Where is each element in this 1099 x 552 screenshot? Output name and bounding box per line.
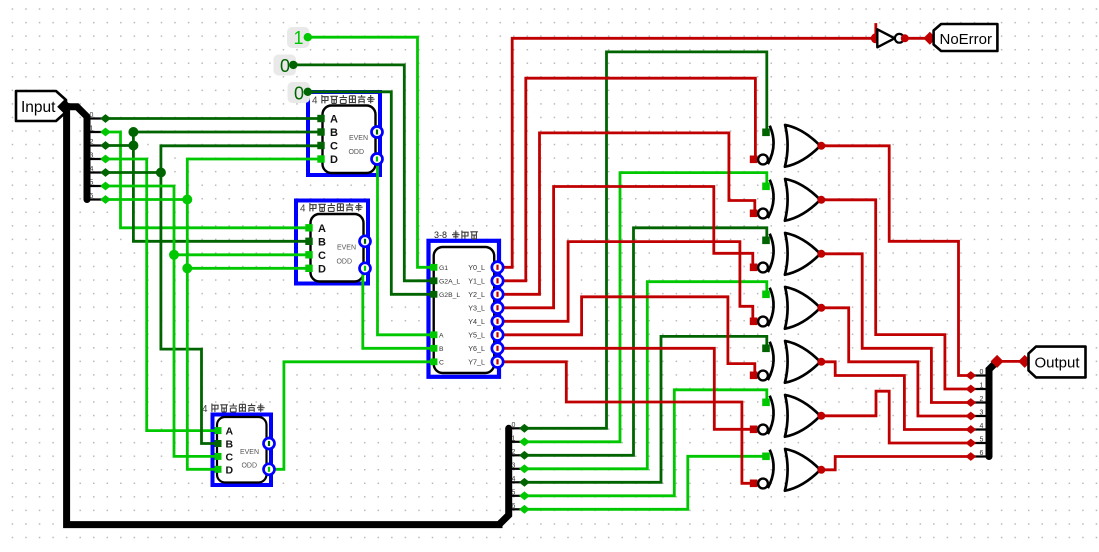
svg-text:EVEN: EVEN — [349, 135, 368, 142]
wire U4.Y7_L to G7 lower — [502, 362, 754, 484]
wire U4.Y4_L to G4 lower — [502, 242, 753, 322]
svg-text:3: 3 — [980, 410, 984, 417]
wire U3.ODD to U4.C — [269, 362, 433, 470]
node G5 output — [817, 358, 825, 366]
wire data bit6 to G7 upper input — [524, 456, 766, 509]
svg-text:G2B_L: G2B_L — [439, 292, 460, 299]
node bit2 corner dot — [128, 127, 138, 137]
wire bit4 to U1.C — [106, 146, 322, 173]
node G3 output — [817, 250, 825, 258]
node G1 output — [817, 142, 825, 150]
svg-text:5: 5 — [980, 437, 984, 444]
ports U3 — [215, 427, 222, 434]
svg-text:A: A — [318, 223, 326, 235]
node bottom splitter leg 1 — [519, 437, 530, 446]
svg-text:B: B — [330, 127, 338, 139]
svg-text:0: 0 — [980, 369, 984, 376]
constant 1 — [287, 27, 310, 48]
wire data bit1 to G2 upper input — [524, 173, 766, 442]
svg-text:2: 2 — [980, 396, 984, 403]
wire G1 output to combiner bit0 — [821, 146, 971, 376]
svg-text:Y3_L: Y3_L — [468, 304, 485, 313]
node constant1 output — [304, 33, 312, 41]
node constant0b output — [304, 88, 312, 96]
parity checker U3 (4-bit odd/even) — [213, 415, 272, 486]
svg-text:3: 3 — [512, 462, 516, 469]
svg-text:ODD: ODD — [348, 149, 364, 156]
svg-text:Y7_L: Y7_L — [468, 358, 485, 367]
wire G2 output to combiner bit1 — [821, 200, 971, 389]
svg-text:C: C — [330, 141, 338, 153]
wire data bit3 to G4 upper input — [524, 282, 766, 469]
node G6 output — [817, 412, 825, 420]
node bit6 junction — [182, 195, 192, 205]
svg-text:6: 6 — [90, 193, 94, 200]
svg-text:EVEN: EVEN — [337, 244, 356, 251]
wire bit3 to U3.A — [106, 159, 217, 431]
wire const1 to U4.G1 — [308, 37, 433, 267]
wire U4.Y2_L to G2 lower — [502, 133, 755, 294]
wire bit5 to U3.C — [174, 255, 216, 457]
node top splitter leg 5 — [100, 182, 111, 191]
node constant0a output — [289, 61, 297, 69]
svg-text:ODD: ODD — [241, 462, 257, 469]
node Output pin tip — [1018, 355, 1031, 368]
node U5 output — [901, 34, 909, 42]
wire bit0 to U1.A — [106, 117, 322, 120]
svg-text:4: 4 — [512, 476, 516, 483]
constant 0 (b) — [288, 82, 311, 103]
node bit6 junction 2 — [182, 263, 192, 273]
output pin Output — [1029, 347, 1086, 378]
svg-text:5: 5 — [90, 180, 94, 187]
svg-text:B: B — [439, 346, 444, 353]
node top splitter leg 3 — [100, 155, 111, 164]
node combiner leg 1 — [965, 385, 976, 394]
node bottom splitter leg 3 — [519, 464, 530, 473]
ports U2 — [305, 224, 312, 231]
svg-text:0: 0 — [280, 56, 290, 76]
wire G6 output to combiner bit5 — [821, 391, 971, 443]
splitter S1 (7-bit fanout, top) — [66, 107, 87, 200]
svg-text:4: 4 — [312, 95, 318, 106]
svg-text:Y2_L: Y2_L — [468, 290, 485, 299]
wire bit2 to U2.B — [133, 146, 310, 242]
svg-text:Y0_L: Y0_L — [468, 263, 485, 272]
svg-text:6: 6 — [980, 450, 984, 457]
wire const0b to U4.G2B_L — [308, 92, 433, 294]
decoder U4 (3-to-8) — [429, 241, 500, 377]
svg-text:0: 0 — [294, 84, 304, 104]
wire bit5 to U2.C — [106, 186, 311, 255]
node bottom splitter leg 6 — [519, 505, 530, 514]
node combiner leg 3 — [965, 412, 976, 421]
node top splitter leg 4 — [100, 168, 111, 177]
not gate U5 — [877, 29, 894, 47]
wire data bit0 to G1 upper input — [524, 52, 766, 428]
wire U1.ODD to U4.A — [377, 159, 433, 335]
xor gate G6 (negated lower input) — [785, 395, 820, 437]
node top splitter leg 0 — [100, 114, 111, 123]
svg-text:D: D — [330, 154, 338, 166]
wire data bit2 to G3 upper input — [524, 228, 766, 455]
xor gate G1 (negated lower input) — [785, 125, 820, 167]
node top splitter leg 6 — [100, 195, 111, 204]
node combiner leg 6 — [965, 452, 976, 461]
svg-text:2: 2 — [512, 449, 516, 456]
svg-text:2: 2 — [90, 139, 94, 146]
node G2 output — [817, 196, 825, 204]
svg-text:A: A — [439, 333, 444, 340]
svg-text:A: A — [226, 426, 234, 438]
svg-text:C: C — [318, 250, 326, 262]
svg-text:G1: G1 — [439, 265, 448, 272]
node bottom splitter leg 2 — [519, 451, 530, 460]
parity checker U2 (4-bit odd/even) — [296, 201, 368, 284]
wire bit6 to U2.D — [187, 200, 310, 269]
wire bit6 to U3.D — [187, 268, 216, 469]
splitter S3 (7-bit combiner, output) — [989, 361, 997, 456]
wire U4.Y6_L to G6 lower — [502, 348, 754, 429]
xor gate G3 (negated lower input) — [785, 233, 820, 275]
wire bit1 to U2.A — [106, 132, 311, 228]
splitter S2 (7-bit fanout, bottom) — [499, 428, 509, 524]
svg-text:C: C — [439, 360, 444, 367]
wire data bit4 to G5 upper input — [524, 336, 766, 482]
svg-text:A: A — [330, 114, 338, 126]
node NOT input junction — [871, 33, 881, 43]
node NoError pin tip — [923, 32, 936, 45]
svg-text:C: C — [226, 451, 234, 463]
svg-text:1: 1 — [512, 435, 516, 442]
parity checker U1 (4-bit odd/even) — [308, 92, 380, 175]
node bottom splitter leg 0 — [519, 424, 530, 433]
wire U4.Y3_L to G3 lower — [502, 187, 753, 308]
node combiner leg 5 — [965, 439, 976, 448]
output pin NoError — [934, 24, 998, 51]
ports U1 — [317, 115, 324, 122]
xor gate G4 (negated lower input) — [785, 287, 820, 329]
wire U4.Y1_L to G1 lower — [502, 78, 755, 281]
wire bit6 to U1.D — [106, 159, 322, 200]
svg-text:1: 1 — [293, 28, 303, 48]
wire const0a to U4.G2A_L — [293, 65, 433, 281]
wire G7 output to combiner bit6 — [821, 457, 971, 470]
svg-text:1: 1 — [980, 383, 984, 390]
svg-text:Y1_L: Y1_L — [468, 277, 485, 286]
node top splitter leg 1 — [100, 128, 111, 137]
wire U5 output to NoError — [904, 37, 930, 40]
wire combiner to Output pin — [997, 360, 1026, 363]
svg-text:D: D — [226, 464, 234, 476]
xor gate G2 (negated lower input) — [785, 179, 820, 221]
xor gate G5 (negated lower input) — [785, 341, 820, 383]
svg-text:B: B — [318, 236, 326, 248]
wire G3 output to combiner bit2 — [821, 254, 971, 403]
node combiner origin — [991, 355, 1004, 368]
svg-text:B: B — [226, 439, 234, 451]
svg-text:Y6_L: Y6_L — [468, 344, 485, 353]
wire stub above NOT input — [874, 25, 877, 39]
svg-text:EVEN: EVEN — [240, 449, 259, 456]
node bit2 junction — [128, 141, 138, 151]
svg-text:3-8: 3-8 — [434, 230, 447, 240]
wire U4.Y5_L to G5 lower — [502, 297, 755, 376]
node top splitter leg 2 — [100, 141, 111, 150]
svg-text:Output: Output — [1035, 355, 1081, 372]
node bottom splitter leg 5 — [519, 491, 530, 500]
node input bus junction — [57, 99, 72, 114]
svg-text:0: 0 — [90, 112, 94, 119]
node G4 output — [817, 304, 825, 312]
node combiner leg 4 — [965, 425, 976, 434]
wire U2.ODD to U4.B — [363, 268, 433, 348]
node bottom splitter leg 4 — [519, 478, 530, 487]
node bit4 junction — [156, 168, 166, 178]
node combiner leg 2 — [965, 398, 976, 407]
wire bus Input to bottom splitter — [65, 107, 499, 525]
svg-text:5: 5 — [512, 489, 516, 496]
svg-text:ODD: ODD — [336, 258, 352, 265]
svg-text:0: 0 — [512, 422, 516, 429]
wire bit4 to U3.B — [161, 173, 216, 444]
node bit5 junction — [169, 250, 179, 260]
wire data bit5 to G6 upper input — [524, 390, 766, 496]
svg-text:1: 1 — [90, 126, 94, 133]
wire bit2 to U1.B — [106, 132, 322, 146]
wire G4 output to combiner bit3 — [821, 308, 971, 416]
svg-text:NoError: NoError — [940, 31, 993, 48]
svg-text:4: 4 — [980, 423, 984, 430]
svg-text:Y4_L: Y4_L — [468, 317, 485, 326]
wire U4.Y0_L to NOT input — [502, 38, 876, 267]
svg-text:G2A_L: G2A_L — [439, 279, 460, 286]
svg-text:Input: Input — [21, 99, 56, 116]
node G7 output — [817, 466, 825, 474]
wire G5 output to combiner bit4 — [821, 362, 971, 430]
svg-text:3: 3 — [90, 153, 94, 160]
ports U4 — [430, 264, 437, 271]
svg-text:4: 4 — [90, 166, 94, 173]
svg-text:6: 6 — [512, 503, 516, 510]
xor gate G7 (negated lower input) — [785, 449, 820, 491]
constant 0 (a) — [274, 55, 297, 76]
svg-text:4: 4 — [300, 203, 306, 214]
svg-text:Y5_L: Y5_L — [468, 331, 485, 340]
input pin Input — [16, 91, 66, 121]
node combiner leg 0 — [965, 371, 976, 380]
svg-text:D: D — [318, 263, 326, 275]
